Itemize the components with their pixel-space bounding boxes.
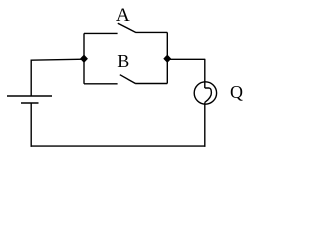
lamp Q: envelope circle	[194, 82, 216, 104]
switch B blade (open)	[120, 75, 136, 84]
wire: bottom rail	[31, 145, 206, 147]
switch A blade (open)	[118, 23, 136, 32]
wire: lamp top lead	[204, 59, 206, 88]
wire: branch B right segment	[135, 83, 167, 85]
svg-text:A: A	[116, 5, 130, 26]
wire: battery top lead up to top feed corner	[30, 60, 32, 96]
svg-text:Q: Q	[230, 82, 243, 102]
wire: branch A right segment	[135, 31, 167, 33]
wire: branch B left segment	[84, 83, 118, 85]
wire: left riser of parallel branches	[83, 33, 85, 83]
lamp Q: filament curve	[205, 88, 212, 102]
wire: branch A left segment	[84, 32, 118, 34]
wire: lamp bottom lead to bottom rail	[204, 102, 206, 146]
wire: battery bottom lead down to bottom rail	[30, 103, 32, 147]
wire: top feed from battery corner to left junction	[31, 59, 85, 60]
battery cell: short plate (-)	[21, 102, 39, 104]
svg-text:B: B	[117, 51, 129, 71]
junction node: left dot	[81, 55, 88, 62]
junction node: right dot	[164, 55, 171, 62]
wire: right feed from right junction to lamp	[167, 58, 205, 60]
battery cell: long plate (+)	[7, 95, 52, 97]
wire: right riser of parallel branches	[166, 32, 168, 83]
